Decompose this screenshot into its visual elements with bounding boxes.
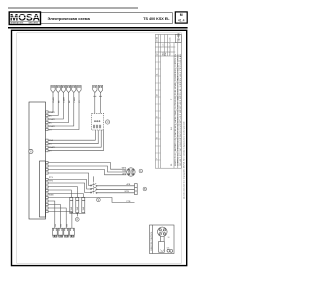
pin 22 — [46, 207, 49, 209]
wire flasher out 3 — [48, 130, 101, 147]
pin 6 — [46, 128, 49, 130]
pin 12 — [46, 168, 49, 170]
svg-text:WELDERS: WELDERS — [29, 23, 39, 25]
svg-text:10A: 10A — [76, 206, 79, 210]
svg-text:BK: BK — [69, 100, 71, 103]
designator S — [97, 198, 101, 202]
svg-text:16: 16 — [168, 237, 170, 239]
welding socket X4 — [127, 168, 135, 176]
wire pin14 to switch pole2 — [48, 180, 90, 190]
flasher unit dashed box — [92, 113, 104, 130]
pin 2 — [46, 114, 49, 116]
pin 1 — [46, 111, 49, 113]
selector switch S1 — [90, 176, 134, 193]
MOSA logo — [9, 12, 40, 25]
svg-text:CU 41.4 A1: CU 41.4 A1 — [179, 53, 182, 67]
svg-text:10: 10 — [157, 94, 159, 96]
faston terminal T5 — [72, 85, 76, 92]
flasher pin labels — [49, 139, 55, 153]
pin 11 — [46, 165, 49, 167]
svg-text:Электрическая схема: Электрическая схема — [48, 16, 91, 21]
svg-text:WT 41.2 B2: WT 41.2 B2 — [180, 109, 182, 123]
fuse bus — [69, 213, 85, 216]
terminal strip X5 — [135, 184, 138, 195]
svg-text:c.a: c.a — [162, 43, 164, 46]
svg-text:C1A/R: C1A/R — [63, 97, 66, 103]
pin 4 — [46, 121, 49, 123]
svg-text:FL 41.1 B1: FL 41.1 B1 — [180, 81, 182, 95]
svg-text:12: 12 — [157, 53, 159, 55]
pin 5 — [46, 125, 49, 127]
socket wire labels — [122, 168, 127, 176]
remote control inset box — [150, 225, 175, 254]
wire pin17 to fuse F1 — [48, 190, 71, 197]
svg-text:10k: 10k — [167, 248, 170, 250]
designator A — [139, 169, 143, 173]
fuse F2 — [76, 197, 79, 200]
switch wire labels — [125, 183, 132, 203]
svg-text:TS 400 KSX EL: TS 400 KSX EL — [143, 17, 170, 21]
svg-text:BK: BK — [66, 223, 68, 226]
wire PTB — [48, 198, 134, 203]
wire pin16 to fuse F2 — [48, 187, 77, 198]
bottom faston B2 — [58, 228, 63, 237]
pin 8 — [46, 143, 49, 145]
pin 9b — [46, 150, 49, 152]
remote potentiometer — [159, 242, 165, 253]
faston terminal T6 — [77, 85, 81, 92]
svg-text:WSB: WSB — [49, 195, 54, 197]
svg-text:REMOTE CONTROL: REMOTE CONTROL — [151, 231, 153, 251]
svg-text:14: 14 — [171, 127, 173, 130]
svg-text:scala: scala — [170, 36, 172, 41]
bottom faston B3 — [64, 228, 69, 237]
svg-text:41.4: 41.4 — [178, 18, 185, 22]
wire flasher out 2 — [48, 130, 98, 144]
pin 15 — [46, 182, 49, 184]
wire OPS to socket — [48, 170, 126, 175]
legend table — [155, 35, 181, 169]
splice tick X3 — [99, 95, 102, 97]
svg-text:BK: BK — [55, 223, 57, 226]
wire pin15 to switch pole3 — [48, 183, 90, 193]
svg-text:WPS: WPS — [122, 168, 127, 170]
wire flasher out 1 — [48, 130, 95, 140]
svg-text:EV 41.2 Y1: EV 41.2 Y1 — [180, 67, 182, 81]
lower pin labels — [49, 177, 54, 197]
svg-text:X: X — [30, 150, 32, 154]
pin 13 — [46, 172, 49, 174]
svg-text:Questo documento e di propriet: Questo documento e di proprieta MOSA. Ne… — [182, 121, 185, 199]
legend left column dividers — [155, 62, 181, 160]
svg-text:7: 7 — [171, 98, 173, 100]
svg-text:C1A/R: C1A/R — [49, 118, 55, 121]
wire T1 to pin1 — [48, 93, 53, 112]
flasher internals — [93, 121, 101, 128]
svg-text:17.06: 17.06 — [157, 37, 159, 42]
svg-text:C1A/R: C1A/R — [73, 97, 76, 103]
svg-text:PTB: PTB — [127, 201, 132, 203]
wire flasher out 4 — [48, 130, 103, 151]
fuse F1 — [69, 197, 85, 216]
bottom faston B1 — [52, 228, 74, 237]
inner margin line — [17, 33, 182, 263]
pin 21 — [46, 203, 49, 205]
wire X2 down — [94, 93, 96, 114]
pin 3 — [46, 118, 49, 120]
wire T6 to pin6 — [48, 93, 79, 130]
wire WPS to socket — [48, 163, 126, 170]
header thick rule — [8, 27, 188, 29]
wire pin21 to faston B2 — [48, 205, 60, 229]
faston terminal X2 — [93, 85, 97, 92]
designator R — [75, 218, 79, 222]
pin 9 — [46, 146, 49, 148]
switch output wires — [97, 185, 135, 187]
svg-text:TS 400: TS 400 — [177, 33, 181, 42]
faston terminal T4 — [67, 85, 71, 92]
legend rotated texts — [157, 36, 172, 159]
svg-text:C1A: C1A — [49, 139, 54, 142]
fuse F3 — [82, 197, 85, 200]
legend title cell — [175, 35, 181, 43]
svg-text:7: 7 — [157, 158, 159, 159]
bottom faston labels rotated — [55, 223, 68, 226]
svg-text:21: 21 — [171, 163, 173, 166]
header band box — [41, 13, 173, 24]
svg-text:ATB: ATB — [127, 183, 131, 186]
pin 14 — [46, 178, 49, 180]
designator B — [143, 187, 147, 191]
faston terminal T1 — [51, 85, 55, 92]
wire STB to socket — [48, 166, 126, 172]
svg-text:GY: GY — [79, 99, 81, 103]
wire T4 to pin4 — [48, 93, 69, 123]
svg-text:BK: BK — [61, 223, 63, 226]
svg-text:PTS: PTS — [49, 177, 54, 179]
svg-text:Dis.: Dis. — [165, 52, 167, 56]
svg-text:GENERATORS: GENERATORS — [10, 22, 24, 25]
remote socket circle — [158, 227, 168, 237]
designator circle on A1 — [29, 149, 33, 153]
fuse value labels rotated — [70, 206, 85, 210]
svg-text:10A: 10A — [70, 206, 73, 210]
switch top feed — [93, 176, 95, 181]
wire X3 down — [100, 93, 102, 114]
bottom faston B4 — [70, 228, 75, 237]
svg-text:C1A/R: C1A/R — [49, 111, 55, 114]
pin 17 — [46, 189, 49, 191]
pin 19 — [46, 196, 49, 198]
svg-text:C1A/R: C1A/R — [49, 125, 55, 128]
svg-text:WTB: WTB — [125, 191, 130, 193]
faston terminal X3 — [98, 85, 102, 92]
pin 7 — [46, 139, 49, 141]
svg-text:App.: App. — [161, 51, 164, 55]
remote aux contacts — [167, 249, 170, 252]
wire T3 to pin3 — [48, 93, 63, 119]
pin 16 — [46, 186, 49, 188]
wire colour labels rotated above pins — [49, 97, 81, 132]
svg-text:C1A/R: C1A/R — [49, 146, 55, 149]
svg-text:TPS: TPS — [49, 181, 54, 183]
svg-text:OP 41.3 S2: OP 41.3 S2 — [180, 95, 182, 109]
pin 10 — [46, 161, 49, 163]
wire pin20 to faston B1 — [48, 201, 55, 228]
sheet box M 41.4 — [175, 12, 187, 23]
svg-text:BK: BK — [58, 100, 60, 103]
svg-text:M: M — [180, 13, 183, 17]
inner connector box — [40, 161, 46, 217]
faston terminal T3 — [61, 85, 65, 92]
drawing frame — [12, 30, 187, 265]
svg-text:C1A/R: C1A/R — [52, 97, 55, 103]
header top rule — [8, 7, 138, 9]
wire T2 to pin2 — [48, 93, 58, 116]
svg-text:11: 11 — [157, 74, 159, 76]
svg-text:10A: 10A — [82, 206, 85, 210]
wire pin22 to faston B3 — [48, 208, 66, 228]
pin 20 — [46, 200, 49, 202]
svg-text:9: 9 — [157, 116, 159, 117]
designator circle flasher — [106, 120, 110, 124]
wire pin23 to faston B4 — [48, 212, 72, 229]
svg-text:BC 41.6 G1: BC 41.6 G1 — [180, 137, 182, 151]
control unit A1 box — [29, 102, 46, 219]
svg-text:M.Bergamaschi: M.Bergamaschi — [169, 42, 172, 56]
wire T5 to pin5 — [48, 93, 74, 126]
splice tick X2 — [93, 95, 96, 97]
wire pin18 to fuse F3 — [48, 194, 83, 198]
pin 18 — [46, 193, 49, 195]
svg-text:SM 41.5 M1: SM 41.5 M1 — [180, 123, 182, 137]
svg-text:RC 41.7 X7: RC 41.7 X7 — [180, 152, 182, 166]
svg-text:8: 8 — [157, 137, 159, 138]
pin 23 — [46, 210, 49, 212]
wire pin13 to switch pole1 — [48, 173, 90, 186]
faston terminal T2 — [56, 85, 60, 92]
